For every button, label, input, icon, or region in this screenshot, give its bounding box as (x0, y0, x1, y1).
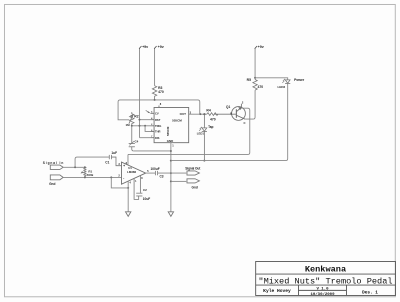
svg-text:8: 8 (160, 102, 162, 106)
wire pin4 down (127, 181, 129, 212)
svg-text:C4: C4 (134, 140, 138, 144)
svg-text:555CM: 555CM (172, 118, 182, 122)
resistor R4 (207, 113, 237, 116)
svg-text:B: B (230, 111, 232, 115)
node led rail join (170, 160, 172, 162)
resistor R1 (81, 167, 86, 177)
555 timer U2 box (154, 107, 189, 142)
LED2 (282, 79, 290, 84)
node +9v split (254, 77, 256, 79)
svg-text:10uF: 10uF (143, 197, 150, 201)
svg-text:C: C (243, 121, 245, 125)
power +9v middle (154, 46, 156, 86)
svg-text:Gnd: Gnd (191, 185, 197, 189)
potentiometer R2 (129, 112, 134, 126)
svg-text:+9v: +9v (258, 45, 264, 49)
node +9v/trig cross (138, 125, 140, 127)
node R3-out junction (154, 99, 156, 101)
svg-text:TRIG: TRIG (155, 124, 161, 128)
node thr tap (144, 125, 146, 127)
wire R5 to collector (245, 90, 255, 119)
svg-text:"Mixed Nuts" Tremolo Pedal: "Mixed Nuts" Tremolo Pedal (258, 276, 392, 286)
svg-text:3: 3 (118, 162, 120, 166)
node c1 tap (74, 166, 76, 168)
input connector Gnd (50, 175, 63, 180)
svg-text:2: 2 (118, 173, 120, 177)
svg-text:-: - (123, 176, 125, 180)
node led1 gnd (203, 160, 205, 162)
svg-text:C3: C3 (159, 174, 163, 178)
svg-text:R5: R5 (247, 78, 251, 82)
svg-text:CV: CV (155, 111, 159, 115)
opamp out wire (146, 172, 156, 174)
resistor R3 (152, 86, 156, 100)
output connector Signal Out (187, 171, 199, 175)
output connector Gnd (187, 179, 199, 183)
node led1 junction (203, 113, 205, 115)
svg-text:1: 1 (172, 144, 174, 148)
wire to LED2 (255, 78, 288, 80)
svg-text:LM386: LM386 (127, 170, 136, 174)
svg-text:1uF: 1uF (111, 151, 117, 155)
input connector Signal In (50, 165, 63, 169)
svg-text:1: 1 (135, 180, 137, 183)
svg-text:Tap: Tap (208, 125, 213, 129)
svg-text:500k: 500k (87, 173, 94, 177)
node rst (138, 119, 140, 121)
555 gnd pin wire down (170, 143, 172, 212)
node pin2 tap (110, 176, 112, 178)
wire dis (139, 137, 150, 139)
op-amp U1 LM386 (121, 162, 145, 184)
svg-text:C2: C2 (143, 188, 147, 192)
svg-text:LED1: LED1 (197, 131, 205, 135)
wire gnd rail A (134, 150, 171, 152)
555 pin stubs left (150, 113, 154, 137)
node pin4 join (127, 187, 129, 189)
svg-text:1M: 1M (125, 123, 130, 127)
wire signal in (63, 166, 85, 168)
svg-text:470: 470 (257, 85, 263, 89)
svg-text:Kyle Hovey: Kyle Hovey (263, 288, 291, 294)
node out line cross (170, 172, 172, 174)
node feedback junction (199, 113, 201, 115)
svg-text:LED2: LED2 (277, 85, 285, 89)
wire LED2 down to led rail (171, 83, 288, 160)
wire pot to TRIG (132, 125, 151, 127)
power +9v right (255, 46, 257, 79)
capacitor C1 (109, 155, 121, 166)
svg-text:+9v: +9v (142, 45, 148, 49)
svg-text:4: 4 (129, 181, 131, 185)
svg-text:Kenkwana: Kenkwana (305, 264, 346, 274)
svg-text:THR: THR (155, 130, 161, 134)
wire rst (139, 119, 150, 121)
svg-text:100uF: 100uF (150, 167, 159, 171)
wire up to C1 (75, 157, 109, 167)
svg-text:2: 2 (242, 100, 244, 104)
svg-text:Gnd: Gnd (49, 182, 55, 186)
svg-text:470: 470 (158, 90, 164, 94)
node r1 top (84, 166, 86, 168)
ground symbol right (168, 212, 173, 217)
ground symbol left (125, 212, 130, 217)
capacitor C4 (129, 126, 135, 151)
wire gnd in (63, 176, 121, 178)
wire thr jog (145, 126, 150, 132)
svg-text:5: 5 (147, 169, 149, 173)
wire rail B to opamp pin6 (127, 154, 129, 164)
svg-text:Signal In: Signal In (43, 161, 64, 165)
svg-text:C1: C1 (105, 160, 109, 164)
svg-text:Q1: Q1 (226, 105, 230, 109)
node out-gnd join (170, 180, 172, 182)
schematic group (50, 46, 290, 216)
node pot bottom (131, 125, 133, 127)
svg-text:8: 8 (141, 177, 143, 180)
capacitor C2 gain (134, 176, 142, 200)
svg-text:R2: R2 (134, 115, 138, 119)
svg-text:10/30/2009: 10/30/2009 (310, 292, 335, 297)
svg-text:Signal Out: Signal Out (185, 167, 201, 171)
wire gnd drop (111, 177, 128, 188)
svg-text:U1: U1 (128, 166, 132, 170)
svg-text:GND: GND (167, 139, 173, 143)
transistor Q1 (232, 104, 246, 121)
svg-text:Des. 1: Des. 1 (362, 291, 378, 296)
wire C3 to out connector (158, 172, 187, 174)
555 cv dangling arrow (146, 110, 150, 113)
svg-text:DIS: DIS (155, 136, 160, 140)
wire emitter loop to rail B (128, 108, 250, 154)
555 out wire (189, 113, 207, 115)
power +9v left (139, 46, 141, 138)
svg-text:+9v: +9v (158, 45, 164, 49)
svg-text:RST: RST (155, 118, 161, 122)
resistor R5 (253, 79, 257, 90)
wire feedback top rail (118, 100, 200, 120)
svg-text:R4: R4 (206, 108, 210, 112)
svg-text:470: 470 (210, 117, 216, 121)
555 vcc stub pin 8 (158, 105, 160, 107)
svg-text:555CM: 555CM (166, 126, 170, 136)
svg-text:OUT: OUT (180, 112, 187, 116)
node r1 bottom (84, 176, 86, 178)
capacitor C3 (155, 171, 157, 175)
svg-text:Power: Power (294, 78, 305, 82)
node gnd rail A join (170, 150, 172, 152)
wire out gnd (171, 180, 186, 182)
LED1 (199, 114, 207, 160)
svg-text:V 1.0: V 1.0 (316, 287, 329, 291)
